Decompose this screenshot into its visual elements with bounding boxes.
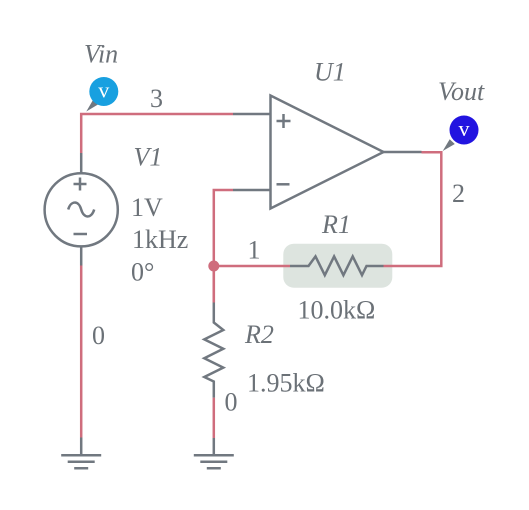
svg-text:1V: 1V — [131, 193, 163, 222]
probe Vout circle — [450, 116, 479, 145]
ground symbol right — [194, 455, 234, 468]
voltage source V1 bottom pin — [80, 246, 83, 266]
voltage source V1 top pin — [80, 153, 83, 174]
svg-text:0: 0 — [225, 388, 238, 417]
svg-text:0: 0 — [92, 321, 105, 350]
svg-text:3: 3 — [150, 84, 163, 113]
probe Vin circle — [89, 77, 118, 106]
op-amp output pin — [384, 151, 422, 154]
op-amp - input pin — [233, 189, 271, 192]
wire V1 to ground — [80, 266, 83, 438]
wire output corner to R1 right — [384, 152, 442, 266]
op-amp + input pin — [233, 113, 271, 116]
svg-text:U1: U1 — [314, 58, 346, 87]
svg-text:V1: V1 — [134, 143, 163, 172]
wire feedback from - pin to node 1 — [214, 190, 233, 303]
ground symbol left — [61, 455, 101, 468]
svg-text:Vout: Vout — [438, 77, 485, 106]
node 1 junction dot — [208, 261, 219, 272]
wire net 3 from Vin corner to op-amp + pin — [81, 114, 233, 153]
wire node 1 down to R2 — [213, 266, 216, 303]
V1 minus mark — [74, 233, 88, 236]
voltage source V1 circle — [45, 173, 118, 246]
V1 plus mark — [74, 178, 87, 191]
svg-text:Vin: Vin — [84, 40, 118, 69]
ground stub left — [80, 438, 83, 456]
V1 sine mark — [68, 203, 94, 217]
resistor R2 body — [204, 303, 223, 398]
op-amp plus input mark — [277, 114, 291, 128]
probe Vin tail — [86, 100, 98, 112]
svg-text:v: v — [459, 116, 470, 141]
ground stub right — [213, 438, 216, 455]
svg-text:1.95kΩ: 1.95kΩ — [247, 368, 325, 397]
svg-text:1kHz: 1kHz — [132, 225, 188, 254]
svg-text:v: v — [98, 78, 109, 103]
op-amp U1 triangle — [271, 96, 384, 209]
wire node 1 to R1 left — [214, 265, 290, 268]
probe Vout tail — [443, 139, 455, 151]
svg-text:10.0kΩ: 10.0kΩ — [298, 295, 376, 324]
resistor R1 highlight — [283, 244, 392, 288]
svg-text:R2: R2 — [244, 320, 274, 349]
svg-text:R1: R1 — [321, 210, 351, 239]
svg-text:2: 2 — [452, 179, 465, 208]
op-amp minus input mark — [277, 183, 290, 186]
svg-text:1: 1 — [248, 236, 261, 265]
svg-text:0°: 0° — [131, 258, 154, 287]
wire R2 to ground — [213, 398, 216, 438]
resistor R1 body — [290, 256, 384, 275]
